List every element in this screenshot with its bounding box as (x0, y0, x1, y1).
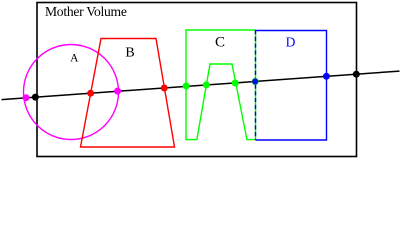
svg-text:C: C (215, 35, 225, 51)
svg-text:A: A (70, 53, 79, 65)
svg-text:D: D (286, 34, 296, 49)
svg-text:Mother Volume: Mother Volume (45, 4, 127, 19)
svg-text:B: B (125, 46, 134, 61)
